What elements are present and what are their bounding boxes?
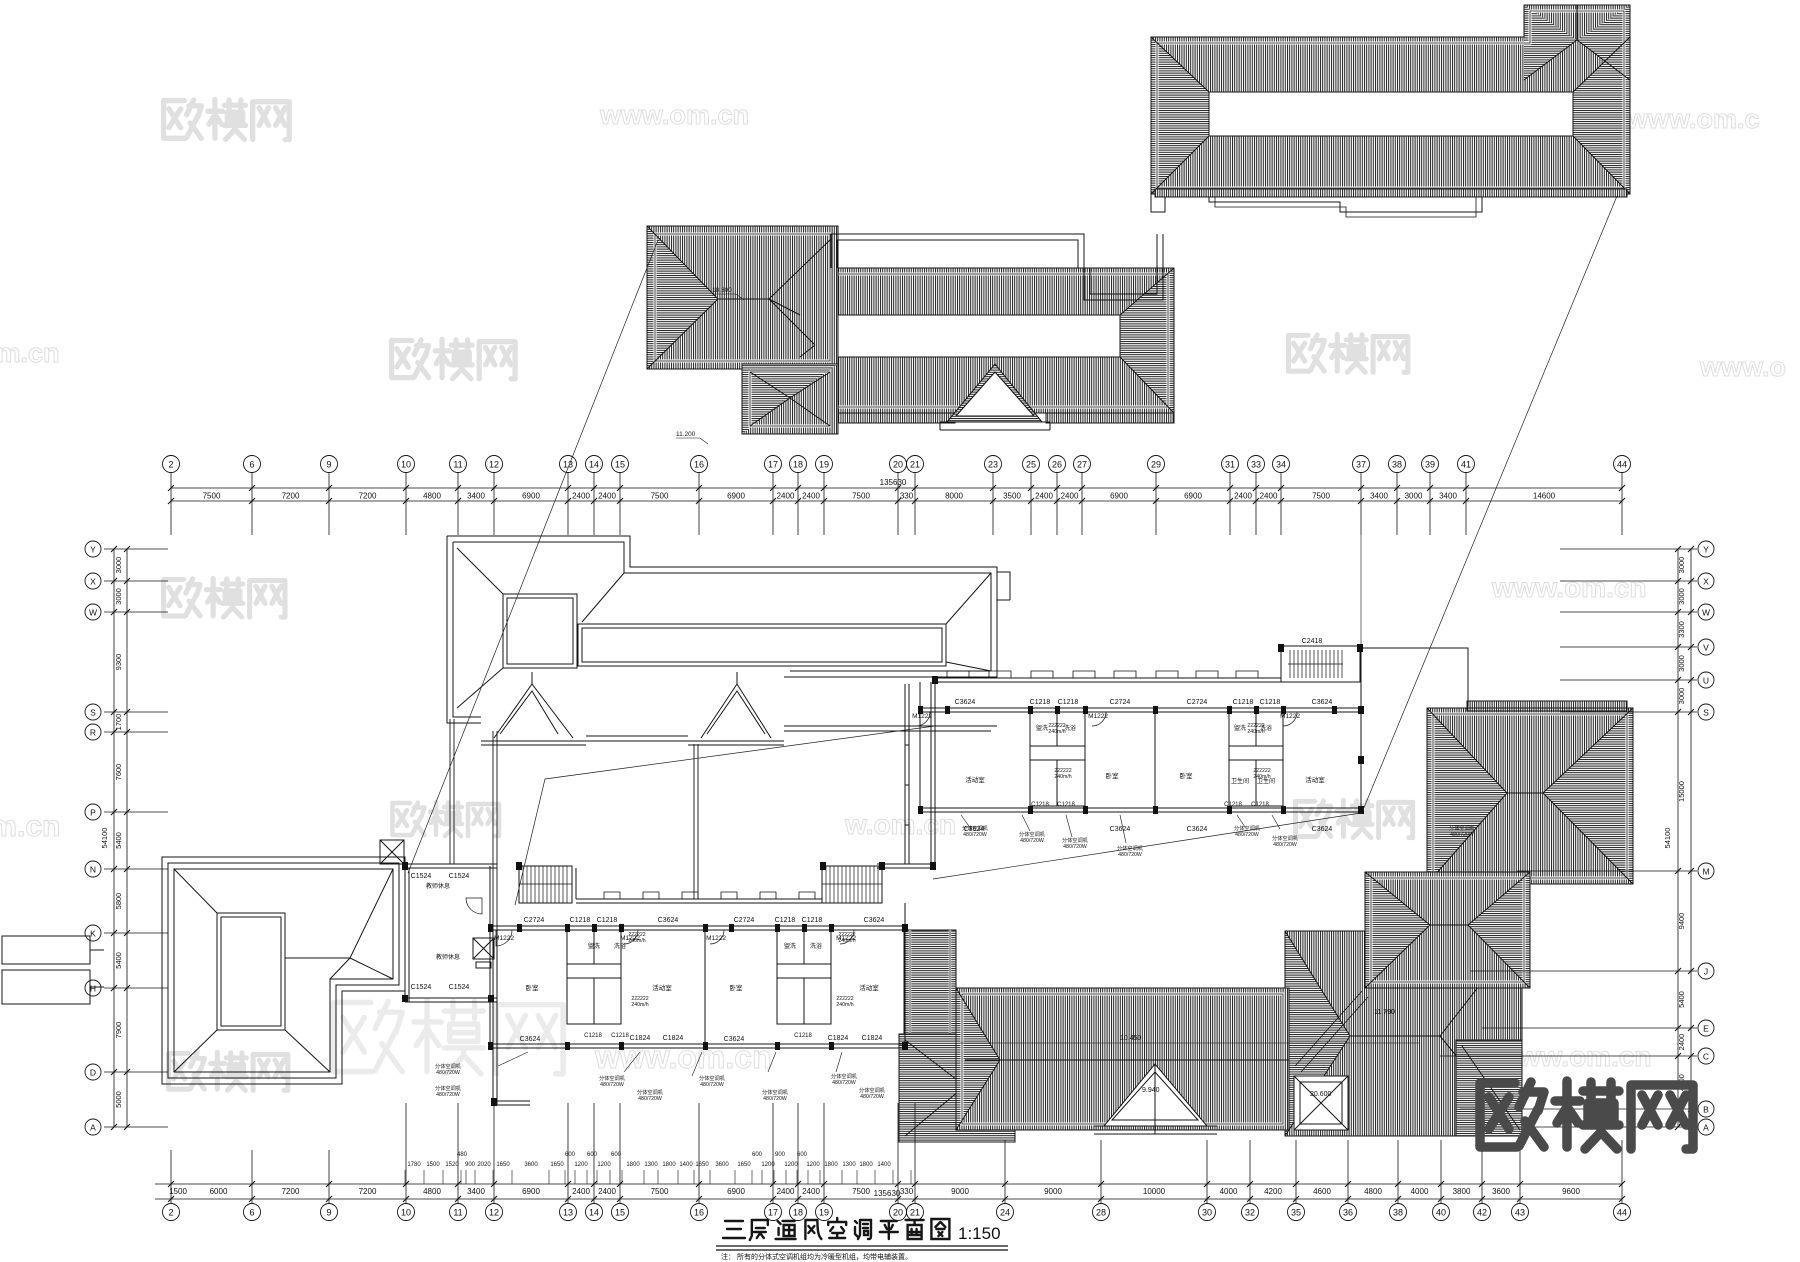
svg-text:C1218: C1218 [1058,699,1079,706]
svg-text:A: A [1703,1123,1709,1133]
svg-text:480/720W: 480/720W [700,1082,724,1088]
svg-text:2400: 2400 [1260,492,1278,501]
svg-text:1500: 1500 [169,1187,187,1196]
svg-text:40: 40 [1436,1208,1446,1218]
svg-text:盥洗: 盥洗 [588,942,600,950]
svg-text:15: 15 [615,460,625,470]
svg-text:480/720W: 480/720W [638,1096,662,1102]
svg-text:4200: 4200 [1264,1187,1282,1196]
svg-text:36: 36 [1343,1208,1353,1218]
svg-text:注： 所有的分体式空调机组均为冷暖型机组，均带电辅装置。: 注： 所有的分体式空调机组均为冷暖型机组，均带电辅装置。 [721,1252,912,1261]
svg-text:C1218: C1218 [1057,802,1075,808]
svg-text:20: 20 [893,1208,903,1218]
svg-text:X: X [1703,577,1709,587]
svg-text:900: 900 [465,1162,476,1168]
svg-text:5000: 5000 [114,1091,123,1108]
svg-text:2400: 2400 [598,492,616,501]
svg-text:10.450: 10.450 [1120,1035,1142,1042]
svg-text:D: D [90,1068,96,1078]
svg-text:480: 480 [457,1152,468,1158]
svg-text:C3624: C3624 [955,699,976,706]
svg-text:480/720W: 480/720W [860,1094,884,1100]
svg-text:C1218: C1218 [802,917,823,924]
svg-text:C1218: C1218 [1233,699,1254,706]
svg-text:M1222: M1222 [494,935,514,942]
svg-text:分体空调机: 分体空调机 [637,1088,664,1096]
svg-text:盥洗: 盥洗 [1036,724,1048,732]
svg-text:10000: 10000 [1143,1187,1166,1196]
svg-text:C1824: C1824 [663,1035,684,1042]
svg-text:16: 16 [694,1208,704,1218]
svg-text:18: 18 [793,460,803,470]
svg-text:33: 33 [1251,460,1261,470]
svg-text:26: 26 [1052,460,1062,470]
svg-text:240m/h: 240m/h [1247,729,1264,735]
svg-text:38: 38 [1392,460,1402,470]
svg-text:分体空调机: 分体空调机 [762,1088,789,1096]
svg-text:480/720W: 480/720W [1273,842,1297,848]
svg-text:32: 32 [1245,1208,1255,1218]
svg-text:480/720W: 480/720W [1450,832,1474,838]
svg-text:www.o: www.o [1699,352,1786,382]
svg-text:1650: 1650 [695,1162,709,1168]
svg-text:20.600: 20.600 [1310,1091,1332,1098]
svg-text:C1824: C1824 [630,1035,651,1042]
svg-text:21: 21 [910,1208,920,1218]
svg-text:分体空调机: 分体空调机 [1117,844,1144,852]
svg-text:240m/h: 240m/h [628,938,645,944]
svg-text:12: 12 [489,1208,499,1218]
svg-text:5400: 5400 [114,832,123,849]
svg-text:C1218: C1218 [584,1033,602,1039]
svg-text:盥洗: 盥洗 [784,942,796,950]
svg-text:C2724: C2724 [1187,699,1208,706]
svg-text:1300: 1300 [842,1162,856,1168]
svg-text:B: B [1703,1105,1709,1115]
svg-text:480/720W: 480/720W [1118,852,1142,858]
svg-text:6000: 6000 [210,1187,228,1196]
svg-text:480/720W: 480/720W [963,832,987,838]
svg-text:1650: 1650 [737,1162,751,1168]
svg-text:42: 42 [1477,1208,1487,1218]
svg-text:C1218: C1218 [1251,802,1269,808]
svg-text:H: H [90,984,96,994]
svg-text:9: 9 [326,1208,331,1218]
svg-text:2400: 2400 [572,492,590,501]
svg-text:3400: 3400 [467,492,485,501]
svg-text:17: 17 [768,1208,778,1218]
svg-text:7500: 7500 [1312,492,1330,501]
svg-text:480/720W: 480/720W [1020,838,1044,844]
svg-text:35: 35 [1291,1208,1301,1218]
svg-text:1:150: 1:150 [958,1224,1001,1243]
svg-text:1200: 1200 [574,1162,588,1168]
svg-text:3500: 3500 [1003,492,1021,501]
svg-text:480/720W: 480/720W [436,1092,460,1098]
svg-text:9400: 9400 [1677,913,1686,930]
svg-text:卧室: 卧室 [730,983,744,992]
svg-text:6900: 6900 [727,1187,745,1196]
svg-text:9.940: 9.940 [1142,1087,1160,1094]
svg-text:R: R [90,728,96,738]
svg-text:3000: 3000 [1405,492,1423,501]
svg-text:2400: 2400 [777,1187,795,1196]
svg-text:C1218: C1218 [1224,802,1242,808]
svg-text:卧室: 卧室 [1180,771,1194,780]
svg-text:K: K [90,929,96,939]
svg-text:600: 600 [587,1152,598,1158]
svg-text:44: 44 [1617,460,1627,470]
svg-text:分体空调机: 分体空调机 [859,1086,886,1094]
svg-text:C2724: C2724 [734,917,755,924]
svg-text:330: 330 [900,1187,914,1196]
svg-text:C3624: C3624 [1187,826,1208,833]
svg-text:分体空调机: 分体空调机 [1272,834,1299,842]
svg-text:29: 29 [1151,460,1161,470]
svg-text:2400: 2400 [1035,492,1053,501]
svg-text:9: 9 [326,460,331,470]
svg-text:17: 17 [768,460,778,470]
svg-text:卧室: 卧室 [526,983,540,992]
svg-text:1800: 1800 [626,1162,640,1168]
svg-text:洗浴: 洗浴 [614,942,626,950]
svg-text:E: E [1703,1024,1709,1034]
svg-text:39: 39 [1425,460,1435,470]
svg-text:14600: 14600 [1533,492,1556,501]
svg-text:600: 600 [565,1152,576,1158]
svg-text:9300: 9300 [114,654,123,671]
svg-text:6900: 6900 [522,1187,540,1196]
svg-text:2020: 2020 [477,1162,491,1168]
svg-text:38: 38 [1393,1208,1403,1218]
svg-text:1400: 1400 [679,1162,693,1168]
svg-text:21: 21 [910,460,920,470]
svg-text:分体空调机: 分体空调机 [831,1072,858,1080]
svg-text:4000: 4000 [1411,1187,1429,1196]
svg-text:J: J [1704,967,1708,977]
svg-text:135630: 135630 [874,1189,901,1198]
svg-text:分体空调机: 分体空调机 [1449,824,1476,832]
svg-text:4600: 4600 [1313,1187,1331,1196]
svg-text:分体空调机: 分体空调机 [1062,836,1089,844]
svg-text:盥洗: 盥洗 [1234,724,1246,732]
svg-text:15000: 15000 [1677,781,1686,802]
svg-text:600: 600 [752,1152,763,1158]
svg-text:S: S [1703,708,1709,718]
svg-text:A: A [90,1123,96,1133]
svg-text:1800: 1800 [859,1162,873,1168]
svg-text:14: 14 [589,460,599,470]
svg-text:3400: 3400 [1439,492,1457,501]
svg-text:240m/h: 240m/h [1054,774,1071,780]
svg-text:20: 20 [893,460,903,470]
svg-text:C3624: C3624 [658,917,679,924]
svg-text:7900: 7900 [114,1022,123,1039]
svg-text:135630: 135630 [880,478,907,487]
svg-text:240m/h: 240m/h [838,938,855,944]
svg-text:24: 24 [1000,1208,1010,1218]
svg-text:3300: 3300 [1677,621,1686,638]
svg-text:7200: 7200 [359,492,377,501]
svg-text:M1222: M1222 [706,935,726,942]
svg-text:7200: 7200 [359,1187,377,1196]
svg-text:1520: 1520 [445,1162,459,1168]
svg-text:37: 37 [1356,460,1366,470]
svg-text:X: X [90,577,96,587]
svg-text:W: W [89,608,97,618]
svg-text:25: 25 [1026,460,1036,470]
svg-text:7200: 7200 [282,1187,300,1196]
svg-text:1200: 1200 [597,1162,611,1168]
svg-text:10: 10 [401,1208,411,1218]
svg-text:C1218: C1218 [1030,699,1051,706]
svg-text:7500: 7500 [852,492,870,501]
svg-text:2400: 2400 [1234,492,1252,501]
svg-text:Y: Y [90,545,96,555]
svg-text:C1218: C1218 [1031,802,1049,808]
svg-text:2: 2 [168,1208,173,1218]
svg-text:27: 27 [1077,460,1087,470]
svg-text:4000: 4000 [1220,1187,1238,1196]
svg-text:C3624: C3624 [1312,699,1333,706]
svg-text:C2724: C2724 [1110,699,1131,706]
svg-text:C: C [1703,1052,1709,1062]
svg-text:M1222: M1222 [912,713,932,720]
svg-text:分体空调机: 分体空调机 [435,1084,462,1092]
svg-text:N: N [90,865,96,875]
svg-text:C1524: C1524 [411,873,432,880]
svg-text:12: 12 [489,460,499,470]
svg-text:活动室: 活动室 [859,983,879,992]
svg-text:C1524: C1524 [411,984,432,991]
svg-text:240m/h: 240m/h [836,1002,853,1008]
svg-text:16: 16 [694,460,704,470]
svg-text:C1218: C1218 [570,917,591,924]
svg-text:W: W [1702,608,1710,618]
svg-text:34: 34 [1276,460,1286,470]
svg-text:C2418: C2418 [1302,638,1323,645]
svg-text:1400: 1400 [877,1162,891,1168]
svg-text:2400: 2400 [572,1187,590,1196]
svg-text:分体空调机: 分体空调机 [699,1074,726,1082]
svg-text:9000: 9000 [1044,1187,1062,1196]
svg-text:44: 44 [1617,1208,1627,1218]
svg-text:15: 15 [615,1208,625,1218]
svg-text:C1524: C1524 [449,873,470,880]
svg-text:卧室: 卧室 [1106,771,1120,780]
svg-text:1780: 1780 [407,1162,421,1168]
svg-text:7600: 7600 [114,764,123,781]
svg-text:卫生间: 卫生间 [1231,777,1249,785]
svg-text:活动室: 活动室 [652,983,672,992]
svg-text:31: 31 [1225,460,1235,470]
svg-text:C1218: C1218 [597,917,618,924]
svg-text:活动室: 活动室 [965,775,985,784]
svg-text:C3624: C3624 [864,917,885,924]
svg-text:7500: 7500 [651,492,669,501]
svg-text:1200: 1200 [761,1162,775,1168]
svg-text:C1218: C1218 [611,1033,629,1039]
svg-text:13: 13 [563,1208,573,1218]
svg-text:www.om.cn: www.om.cn [1491,572,1647,603]
svg-text:教师休息: 教师休息 [426,882,450,890]
svg-text:43: 43 [1515,1208,1525,1218]
svg-text:10: 10 [401,460,411,470]
svg-text:5800: 5800 [114,893,123,910]
svg-text:11: 11 [453,460,462,470]
svg-text:2400: 2400 [802,1187,820,1196]
svg-text:6: 6 [249,460,254,470]
svg-text:900: 900 [775,1152,786,1158]
svg-text:11.790: 11.790 [1374,1009,1395,1016]
svg-text:www.om.cn: www.om.cn [599,100,749,130]
svg-text:19: 19 [819,460,829,470]
svg-text:11.200: 11.200 [676,431,696,438]
svg-text:3600: 3600 [1492,1187,1510,1196]
svg-text:240m/h: 240m/h [631,1002,648,1008]
svg-text:480/720W: 480/720W [1235,832,1259,838]
svg-text:600: 600 [611,1152,622,1158]
svg-text:M1222: M1222 [1088,713,1108,720]
svg-text:C1524: C1524 [449,984,470,991]
svg-text:S: S [90,708,96,718]
svg-text:6900: 6900 [727,492,745,501]
svg-text:C1824: C1824 [828,1035,849,1042]
svg-text:4800: 4800 [1364,1187,1382,1196]
svg-text:C2724: C2724 [524,917,545,924]
svg-text:M1222: M1222 [1280,713,1300,720]
svg-text:480/720W: 480/720W [763,1096,787,1102]
svg-text:9000: 9000 [951,1187,969,1196]
svg-text:7500: 7500 [651,1187,669,1196]
svg-text:1800: 1800 [662,1162,676,1168]
svg-text:洗浴: 洗浴 [810,942,822,950]
svg-text:1800: 1800 [824,1162,838,1168]
svg-text:3000: 3000 [1677,655,1686,672]
svg-text:分体空调机: 分体空调机 [435,1062,462,1070]
svg-text:18.300: 18.300 [712,287,732,294]
svg-text:3000: 3000 [114,557,123,574]
svg-text:1200: 1200 [806,1162,820,1168]
svg-text:3000: 3000 [1677,557,1686,574]
svg-text:3000: 3000 [1677,688,1686,705]
svg-text:C1824: C1824 [862,1035,883,1042]
svg-text:om.cn: om.cn [0,338,60,368]
svg-text:480/720W: 480/720W [436,1070,460,1076]
svg-text:C1218: C1218 [1260,699,1281,706]
svg-text:U: U [1703,676,1709,686]
svg-text:M: M [1702,867,1709,877]
svg-text:3800: 3800 [1453,1187,1471,1196]
svg-text:240m/h: 240m/h [1048,729,1065,735]
svg-text:www.om.c: www.om.c [1626,104,1760,134]
svg-text:C3624: C3624 [724,1036,745,1043]
svg-text:5400: 5400 [1677,991,1686,1008]
svg-text:6900: 6900 [1110,492,1128,501]
svg-text:2: 2 [168,460,173,470]
svg-text:7500: 7500 [852,1187,870,1196]
svg-text:18: 18 [793,1208,803,1218]
svg-text:240m/h: 240m/h [1253,774,1270,780]
svg-text:C3624: C3624 [1110,826,1131,833]
svg-text:330: 330 [900,492,914,501]
svg-text:3400: 3400 [1370,492,1388,501]
svg-text:7500: 7500 [203,492,221,501]
svg-text:2400: 2400 [1061,492,1079,501]
svg-text:3400: 3400 [467,1187,485,1196]
svg-text:1650: 1650 [550,1162,564,1168]
svg-text:54100: 54100 [100,828,109,849]
svg-text:活动室: 活动室 [1305,775,1325,784]
svg-text:3000: 3000 [114,588,123,605]
svg-text:54100: 54100 [1663,828,1672,849]
svg-text:教师休息: 教师休息 [436,953,460,961]
svg-text:洗浴: 洗浴 [1064,724,1076,732]
svg-text:6: 6 [249,1208,254,1218]
svg-text:V: V [1703,643,1709,653]
svg-text:30: 30 [1202,1208,1212,1218]
svg-text:14: 14 [589,1208,599,1218]
svg-text:1650: 1650 [496,1162,510,1168]
svg-text:P: P [90,808,96,818]
svg-text:480/720W: 480/720W [1063,844,1087,850]
svg-text:om.cn: om.cn [0,810,60,843]
svg-text:C1218: C1218 [775,917,796,924]
svg-text:2400: 2400 [802,492,820,501]
svg-text:w.om.cn: w.om.cn [844,809,956,840]
svg-text:Y: Y [1703,545,1709,555]
svg-text:600: 600 [797,1152,808,1158]
svg-text:4800: 4800 [423,492,441,501]
svg-text:4800: 4800 [423,1187,441,1196]
svg-text:6900: 6900 [1184,492,1202,501]
svg-text:3600: 3600 [715,1162,729,1168]
svg-text:3600: 3600 [524,1162,538,1168]
svg-text:9600: 9600 [1562,1187,1580,1196]
svg-text:2400: 2400 [598,1187,616,1196]
svg-text:7200: 7200 [282,492,300,501]
svg-text:480/720W: 480/720W [832,1080,856,1086]
svg-text:C3624: C3624 [1312,826,1333,833]
svg-text:480/720W: 480/720W [600,1082,624,1088]
svg-text:11: 11 [453,1208,462,1218]
svg-text:分体空调机: 分体空调机 [599,1074,626,1082]
svg-text:分体空调机: 分体空调机 [1019,830,1046,838]
svg-text:2400: 2400 [1677,1034,1686,1051]
svg-text:3000: 3000 [1677,588,1686,605]
svg-text:28: 28 [1096,1208,1106,1218]
svg-text:41: 41 [1461,460,1471,470]
svg-text:1500: 1500 [426,1162,440,1168]
svg-text:23: 23 [988,460,998,470]
svg-text:1300: 1300 [644,1162,658,1168]
svg-text:1200: 1200 [784,1162,798,1168]
svg-text:5400: 5400 [114,952,123,969]
svg-text:2400: 2400 [777,492,795,501]
svg-text:19: 19 [819,1208,829,1218]
svg-text:1700: 1700 [114,714,123,731]
svg-text:C3624: C3624 [520,1036,541,1043]
svg-text:C1218: C1218 [794,1033,812,1039]
svg-text:6900: 6900 [522,492,540,501]
svg-text:8000: 8000 [945,492,963,501]
svg-text:分体空调机: 分体空调机 [962,824,989,832]
